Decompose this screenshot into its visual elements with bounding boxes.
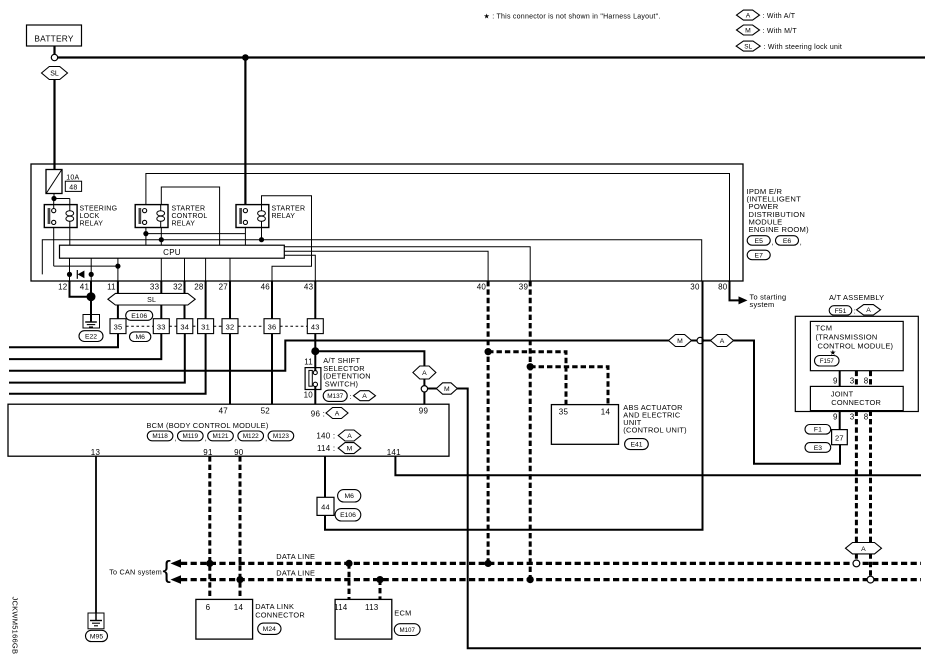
wire starter relay contact down to CPU	[244, 228, 246, 246]
pin 30 label (IPDM)	[690, 283, 700, 292]
wire CAN-H IPDM 39	[529, 281, 532, 580]
connector 44 box (M6/E106)	[317, 497, 334, 515]
svg-text:E41: E41	[630, 442, 642, 449]
svg-text:39: 39	[519, 283, 529, 292]
svg-text:43: 43	[311, 322, 320, 331]
pin 41 label (IPDM)	[80, 283, 90, 292]
svg-text:: With steering lock unit: : With steering lock unit	[764, 44, 843, 51]
svg-text:SWITCH): SWITCH)	[325, 379, 358, 388]
connector E3	[805, 443, 831, 453]
svg-text:JCKWM5166GB: JCKWM5166GB	[11, 597, 20, 655]
svg-text:M: M	[444, 386, 450, 393]
node JC3 on data line 1 (open)	[853, 560, 860, 567]
arrow data line 1 to CAN	[171, 559, 182, 568]
svg-text:M6: M6	[135, 334, 145, 341]
wire SC relay contact down to CPU	[145, 228, 147, 246]
connector M24	[258, 623, 281, 634]
connector pin 34 (E106/M6)	[177, 319, 193, 334]
BCM box	[8, 404, 449, 456]
svg-text:80: 80	[718, 283, 728, 292]
svg-text:3: 3	[850, 377, 855, 386]
wire connector 44 to IPDM 30	[325, 281, 703, 530]
label data line 1	[276, 552, 315, 561]
node variant split (open circle)	[697, 337, 703, 343]
svg-text:RELAY: RELAY	[272, 213, 296, 220]
svg-text:10: 10	[304, 391, 314, 400]
svg-text:BATTERY: BATTERY	[34, 34, 73, 44]
label BCM pin 13	[91, 448, 101, 457]
connector pin 35 (E106/M6)	[110, 319, 126, 334]
svg-text:8: 8	[864, 413, 869, 422]
wire connector 35 to left	[9, 334, 118, 348]
svg-text:STARTER: STARTER	[172, 206, 206, 213]
wire fuse to steering lock relay contact	[53, 199, 55, 209]
svg-text:A: A	[362, 393, 367, 400]
label BCM pin 91	[203, 448, 213, 457]
connector M6	[130, 332, 151, 342]
wire CPU to pin 41	[90, 258, 92, 281]
node pin41/diode	[89, 272, 94, 277]
svg-text:A: A	[335, 410, 340, 417]
doc number JCKWM5166GB	[11, 597, 20, 655]
svg-text:RELAY: RELAY	[172, 220, 196, 227]
svg-text:F157: F157	[820, 358, 835, 365]
svg-text:M: M	[677, 338, 683, 345]
svg-text:A: A	[347, 433, 352, 440]
pin 40 label (IPDM)	[477, 283, 487, 292]
labels TCM pins 9 3 8	[833, 377, 869, 386]
pin 32 label (IPDM)	[173, 283, 183, 292]
svg-text:46: 46	[261, 283, 271, 292]
svg-text:CONNECTOR: CONNECTOR	[831, 398, 881, 407]
wire connector 34 to left	[9, 334, 185, 383]
wire BCM 91 to DLC 6	[208, 456, 211, 599]
svg-text:14: 14	[234, 603, 244, 612]
svg-text:27: 27	[219, 283, 229, 292]
connector E22	[79, 331, 103, 342]
svg-text:M121: M121	[213, 433, 229, 440]
wire line2 coil supply to pin 30	[42, 240, 701, 281]
svg-text:140 :: 140 :	[316, 431, 335, 440]
node data line 2 / 90	[236, 576, 243, 583]
wire CAN-L branch to ABS 35	[488, 352, 566, 405]
wire CAN-H branch to ABS 14	[530, 367, 608, 405]
wire dashed connector link 4	[214, 325, 222, 327]
node ground junction	[87, 292, 96, 301]
wire TCM 9 to joint connector	[839, 371, 841, 387]
svg-text:M24: M24	[263, 626, 276, 633]
svg-text:36: 36	[268, 322, 277, 331]
svg-text:96 :: 96 :	[311, 410, 325, 419]
svg-text:,: ,	[235, 436, 237, 443]
wire feed down to starter relay	[244, 58, 246, 205]
svg-text:BCM (BODY CONTROL MODULE): BCM (BODY CONTROL MODULE)	[147, 421, 269, 430]
svg-text:M123: M123	[273, 433, 289, 440]
wire JC 9 to connector 27	[839, 411, 841, 430]
label BCM title	[147, 421, 269, 430]
svg-text:,: ,	[772, 240, 774, 247]
svg-text:,: ,	[265, 436, 267, 443]
pin 43 label (IPDM)	[304, 283, 314, 292]
svg-text:114: 114	[334, 603, 348, 612]
node fuse junction	[51, 196, 56, 201]
svg-text:A: A	[746, 13, 751, 20]
label steering lock relay	[80, 206, 118, 228]
connector E106	[126, 311, 153, 321]
svg-text:DATA LINE: DATA LINE	[276, 568, 315, 577]
node battery junction (open circle)	[51, 54, 57, 60]
svg-text:{: {	[163, 556, 171, 584]
wire fuse bottom	[53, 194, 55, 199]
svg-text:33: 33	[150, 283, 160, 292]
svg-text:A: A	[422, 370, 427, 377]
node SC contact / line1	[143, 231, 148, 236]
svg-text:48: 48	[69, 184, 77, 191]
connector pin 32 (E106/M6)	[222, 319, 238, 334]
svg-text:M6: M6	[344, 493, 354, 500]
wire branch to BCM 99	[315, 351, 424, 404]
wire CPU to pin 32	[184, 258, 186, 281]
wire CPU to pin 40	[284, 251, 488, 281]
svg-text:M95: M95	[90, 633, 103, 640]
node CAN-L branch	[485, 348, 492, 355]
label DLC pin 14	[234, 603, 244, 612]
connector 27 box (F1/E3)	[832, 430, 848, 445]
svg-text:STEERING: STEERING	[80, 206, 118, 213]
wire fuse to steering lock relay coil	[54, 199, 70, 205]
arrow data line 2 to CAN	[171, 575, 182, 584]
wire connector 36 to BCM 52	[271, 334, 273, 405]
svg-text:E106: E106	[131, 313, 147, 320]
node starter coil / line2	[259, 237, 264, 242]
node feed to starter relay (junction dot)	[242, 54, 249, 61]
wire TCM 3 to joint connector	[855, 371, 858, 387]
label BCM pin 141	[387, 448, 401, 457]
svg-text:DATA LINE: DATA LINE	[276, 552, 315, 561]
connector M118 M119 M121 M122 M123	[147, 431, 293, 443]
connector F51 : A	[829, 305, 880, 316]
IPDM E/R box	[31, 164, 743, 281]
pin 12 label (IPDM)	[58, 283, 68, 292]
pin 33 label (IPDM)	[150, 283, 160, 292]
wire CPU to pin 33	[160, 258, 162, 281]
node CAN-L on data line 1	[485, 560, 492, 567]
svg-text:CPU: CPU	[163, 248, 181, 257]
connector SL (steering lock) on battery drop	[42, 67, 68, 80]
connector E5	[747, 236, 774, 247]
wire pin 33 to connector 33	[160, 281, 162, 319]
node pin12/diode	[67, 272, 72, 277]
svg-text:141: 141	[387, 448, 401, 457]
label A/T shift selector	[323, 356, 371, 389]
svg-text::: :	[350, 394, 352, 401]
legend connector SL	[736, 41, 842, 51]
label BCM pin 140	[316, 430, 360, 441]
connector M137	[323, 390, 375, 401]
svg-text:43: 43	[304, 283, 314, 292]
svg-text:27: 27	[835, 434, 844, 443]
svg-text:40: 40	[477, 283, 487, 292]
svg-text:34: 34	[180, 322, 189, 331]
svg-text:E7: E7	[755, 252, 764, 259]
data link connector box	[196, 599, 253, 639]
svg-text:35: 35	[559, 408, 569, 417]
pin 27 label (IPDM)	[219, 283, 229, 292]
label BCM pin 52	[261, 407, 271, 416]
svg-text:30: 30	[690, 283, 700, 292]
node ECM 113 on data line 2	[376, 576, 383, 583]
svg-text:SL: SL	[50, 71, 59, 78]
svg-text:3: 3	[850, 413, 855, 422]
ECM box	[335, 599, 392, 639]
svg-text:28: 28	[194, 283, 204, 292]
pin 39 label (IPDM)	[519, 283, 529, 292]
svg-text:F51: F51	[835, 308, 847, 315]
svg-text:M118: M118	[152, 433, 168, 440]
connector F1	[805, 425, 831, 435]
label BCM pin 99	[419, 407, 429, 416]
wire pin 32 to connector 34	[184, 281, 186, 319]
pin 28 label (IPDM)	[194, 283, 204, 292]
wire SC relay coil loop to CPU	[161, 187, 219, 245]
wire data line 1	[181, 562, 921, 565]
svg-text:: With M/T: : With M/T	[763, 28, 798, 35]
wire BCM 140/114 to connector 44	[324, 456, 326, 497]
connector F157	[815, 356, 840, 367]
label ABS actuator	[623, 403, 687, 435]
wire pin 28 to connector 31	[205, 281, 207, 319]
label BCM pin 96	[311, 408, 348, 419]
connector A (with A/T) on TCM wire	[711, 335, 734, 347]
svg-text:52: 52	[261, 407, 271, 416]
svg-text:M119: M119	[183, 433, 199, 440]
fuse 10A 48	[46, 170, 62, 194]
svg-text:99: 99	[419, 407, 429, 416]
svg-text:E3: E3	[814, 445, 823, 452]
CPU box	[60, 245, 285, 258]
connector E6	[776, 236, 803, 247]
wire TCM 9 circuit (left bus to F1/E3)	[9, 341, 840, 464]
svg-text:114 :: 114 :	[317, 444, 335, 453]
svg-text:★ : This connector is not show: ★ : This connector is not shown in "Harn…	[484, 13, 661, 21]
wire pin 46 to connector 36	[271, 281, 273, 319]
label starter relay	[272, 206, 306, 220]
svg-text:system: system	[750, 300, 775, 309]
wire BCM 141 to right	[395, 456, 921, 475]
wire TCM 8 to joint connector	[869, 371, 872, 387]
wire M/T variant to right	[428, 389, 921, 649]
label ABS pin 35	[559, 408, 569, 417]
label data line 2	[276, 568, 315, 577]
label TCM	[816, 324, 894, 351]
label starter control relay	[172, 206, 208, 228]
svg-text:33: 33	[157, 322, 166, 331]
svg-text:(CONTROL UNIT): (CONTROL UNIT)	[623, 425, 687, 434]
node ECM 114 on data line 1	[345, 560, 352, 567]
svg-text:,: ,	[175, 436, 177, 443]
legend connector A	[737, 10, 796, 20]
svg-text:90: 90	[234, 448, 244, 457]
svg-text:41: 41	[80, 283, 90, 292]
svg-text:,: ,	[800, 240, 802, 247]
wire SC relay contact up to pin 80 line	[146, 174, 730, 282]
wire dashed connector link 1	[126, 325, 153, 327]
node variant split 99 (open circle)	[421, 386, 427, 392]
label IPDM E/R block	[747, 187, 810, 234]
svg-text:A: A	[861, 546, 866, 553]
svg-text:LOCK: LOCK	[80, 213, 100, 220]
switch: A/T shift selector (detention switch)	[305, 368, 321, 390]
wire connector 33 to left	[9, 334, 161, 360]
wire switch to BCM 96	[314, 387, 316, 405]
wire CAN-L IPDM 40	[487, 281, 490, 563]
svg-text:E22: E22	[85, 334, 97, 341]
wire SL relay coil to CPU	[69, 228, 71, 246]
node wire11 junction	[115, 264, 120, 269]
svg-text:9: 9	[833, 377, 838, 386]
connector A over CAN pair	[846, 543, 882, 554]
label ECM pin 114	[334, 603, 348, 612]
wire pin 12 to ground join	[70, 281, 92, 297]
battery	[27, 25, 82, 46]
relay: starter control relay	[135, 205, 168, 228]
wire pin 80 to starting system	[730, 281, 739, 300]
wire connector 43 down to switch	[314, 334, 316, 371]
wire line1 SC contact to starter relay contact	[146, 233, 246, 235]
node CAN-H branch	[527, 363, 534, 370]
ground E22	[83, 315, 100, 329]
svg-text:E6: E6	[783, 238, 792, 245]
label ECM	[394, 609, 411, 618]
svg-text:SL: SL	[744, 43, 752, 50]
node JC8 on data line 2 (open)	[867, 576, 874, 583]
svg-text:(TRANSMISSION: (TRANSMISSION	[816, 333, 878, 342]
wire battery down	[53, 46, 55, 54]
label A/T assembly	[829, 293, 884, 302]
legend connector M	[737, 25, 798, 35]
svg-text:M137: M137	[327, 393, 343, 400]
star mark TCM	[830, 348, 837, 357]
diode D1	[77, 270, 84, 279]
svg-text:CONNECTOR: CONNECTOR	[255, 611, 305, 620]
label BCM pin 47	[219, 407, 229, 416]
connector M on M/T wire	[436, 383, 457, 394]
arrow to starting system	[739, 293, 787, 310]
relay: steering lock relay	[44, 205, 77, 228]
svg-text:F1: F1	[814, 427, 822, 434]
label ABS pin 14	[601, 408, 611, 417]
svg-text:E106: E106	[340, 512, 356, 519]
svg-text:A: A	[720, 338, 725, 345]
svg-text:,: ,	[205, 436, 207, 443]
svg-text:TCM: TCM	[816, 324, 833, 333]
node SC coil / line2	[159, 237, 164, 242]
svg-text:6: 6	[206, 603, 211, 612]
wire CPU to pin 11	[117, 258, 119, 281]
svg-text:M: M	[347, 446, 353, 453]
label to CAN system	[109, 556, 171, 584]
connector pin 31 (E106/M6)	[198, 319, 214, 334]
svg-text:CONTROL: CONTROL	[172, 213, 208, 220]
svg-text:M107: M107	[399, 627, 415, 634]
svg-text::: :	[854, 308, 856, 315]
connector M6 (44)	[338, 490, 361, 502]
wire connector 32 to BCM 47	[229, 334, 231, 405]
label pin 10 (switch)	[304, 391, 314, 400]
wire BCM 90 to DLC 14	[239, 456, 242, 599]
svg-text:SL: SL	[147, 297, 156, 304]
svg-text:44: 44	[321, 503, 330, 512]
svg-text:A/T ASSEMBLY: A/T ASSEMBLY	[829, 293, 884, 302]
connector pin 33 (E106/M6)	[153, 319, 169, 334]
wire starter relay coil bottom	[261, 228, 263, 240]
wire ECM 113	[379, 580, 382, 600]
svg-text:E5: E5	[755, 238, 764, 245]
label BCM pin 90	[234, 448, 244, 457]
connector E106 (44)	[335, 509, 361, 521]
label BCM pin 114	[317, 443, 361, 454]
node data line 1 / 91	[206, 560, 213, 567]
svg-text:113: 113	[365, 603, 379, 612]
wire dashed connector link 5	[238, 325, 264, 327]
pin 80 label (IPDM)	[718, 283, 728, 292]
svg-text:47: 47	[219, 407, 229, 416]
wire SL to fuse	[53, 80, 55, 170]
svg-text:91: 91	[203, 448, 213, 457]
svg-text:STARTER: STARTER	[272, 206, 306, 213]
wire dashed connector link 6	[280, 325, 307, 327]
label DLC pin 6	[206, 603, 211, 612]
connector SL (with steering lock unit)	[108, 293, 195, 305]
wire ECM 114	[348, 563, 351, 599]
label pin 11 (switch)	[304, 358, 313, 367]
label 10A	[66, 175, 79, 182]
wire data line 2	[181, 578, 921, 581]
svg-text:M122: M122	[243, 433, 259, 440]
connector E7	[747, 250, 770, 260]
wire CPU to pin 28	[205, 258, 207, 281]
svg-text:11: 11	[107, 283, 116, 292]
label 48 box	[65, 181, 81, 191]
wire BCM 13 to ground	[95, 456, 97, 613]
wire pin 43 to connector 43	[314, 281, 316, 319]
node detention branch	[311, 347, 319, 355]
wire JC 3 to data line 1	[855, 411, 858, 564]
connector pin 43 (E106/M6)	[307, 319, 323, 334]
svg-text:8: 8	[864, 377, 869, 386]
svg-text:32: 32	[226, 322, 235, 331]
svg-text:31: 31	[201, 322, 210, 331]
wire connector 31 to left	[9, 334, 206, 394]
wire CPU to pin 27	[229, 258, 231, 281]
connector M (with M/T) on TCM wire	[669, 335, 692, 347]
wire JC 8 to data line 2	[869, 411, 872, 580]
pin 46 label (IPDM)	[261, 283, 271, 292]
svg-text:11: 11	[304, 358, 313, 367]
ABS actuator box	[551, 405, 618, 445]
svg-text:32: 32	[173, 283, 183, 292]
wire SC relay coil bottom to CPU	[160, 228, 162, 246]
wire pin 41 down	[90, 281, 92, 315]
wire pin 11 to connector 35	[117, 281, 119, 319]
note: star legend	[484, 13, 661, 21]
svg-text:10A: 10A	[66, 175, 79, 182]
svg-text:A: A	[866, 307, 871, 314]
svg-text:ECM: ECM	[394, 609, 411, 618]
joint connector box	[810, 386, 903, 410]
labels JC pins 9 3 8	[833, 413, 869, 422]
wire CPU to pin 43	[284, 255, 315, 281]
